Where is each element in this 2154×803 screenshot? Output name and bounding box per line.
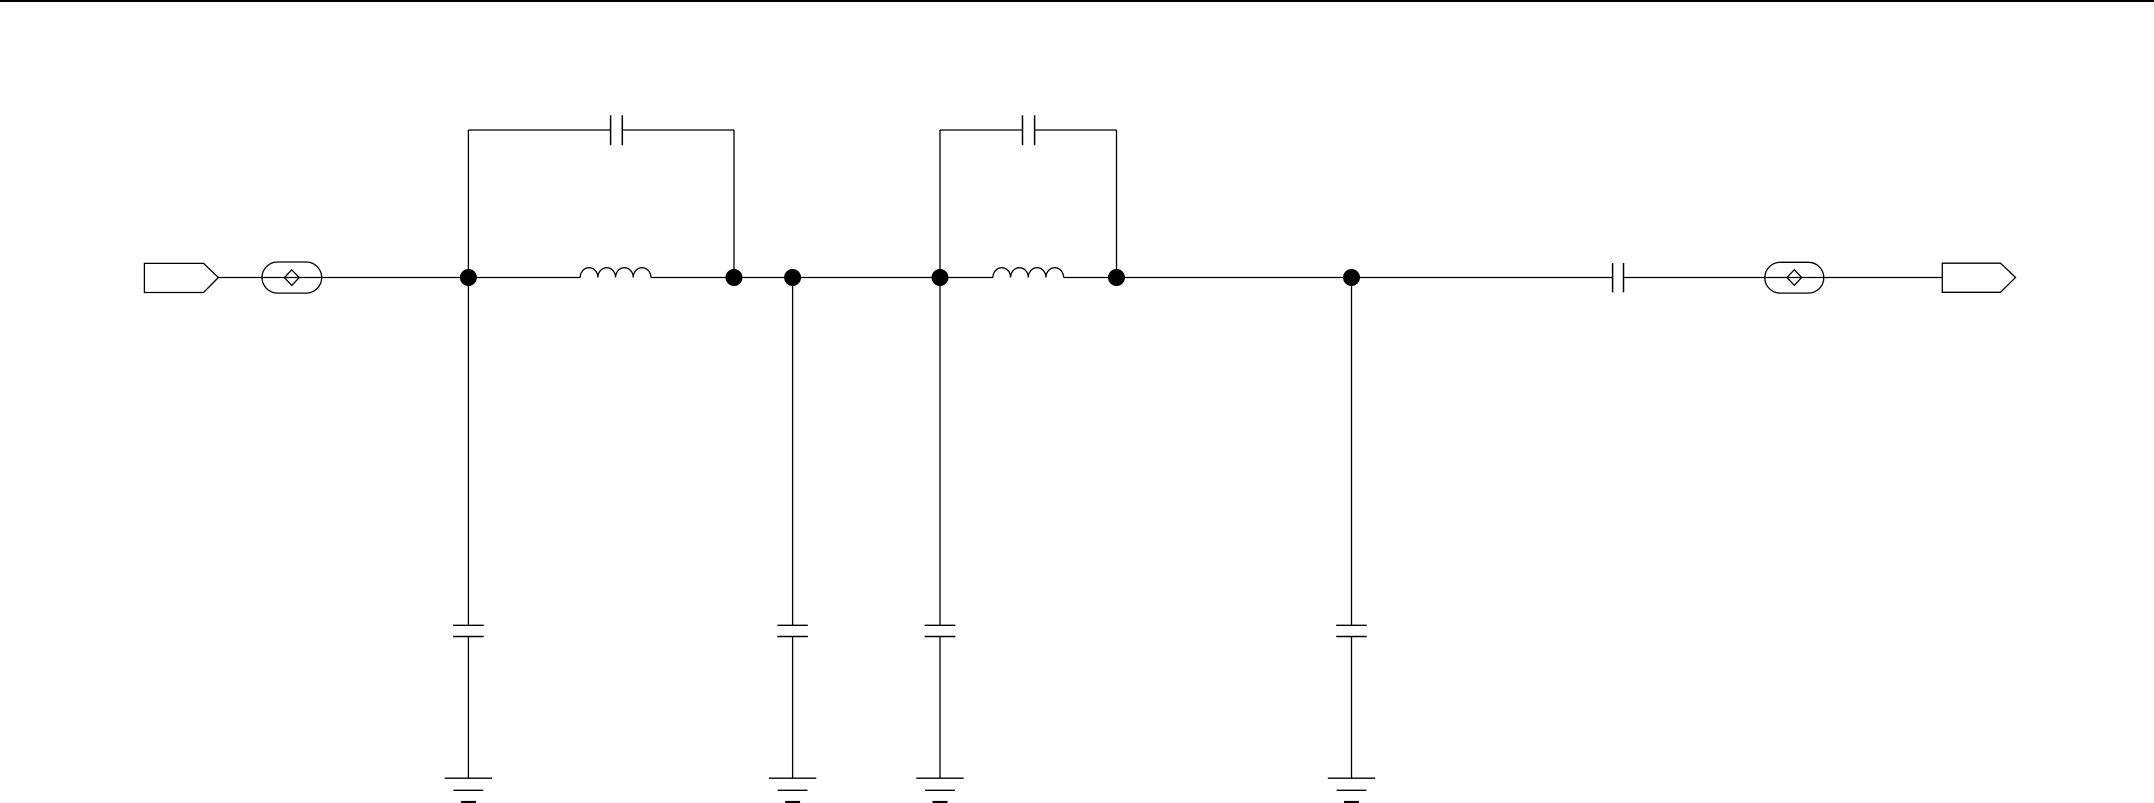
node junction dot 6 [1343,269,1360,286]
capacitor C3 (shunt 1) plates [453,625,484,636]
current probe Pr2 [1765,262,1824,293]
inductor L2 [993,268,1064,278]
wire vertical branch 2 [792,278,794,626]
node junction dot 5 [1108,269,1125,286]
inductor L1 [580,268,651,278]
ground G2 [769,778,816,802]
wire top loop 1 left [468,129,610,131]
ground G4 [1328,778,1375,802]
ground G1 [445,778,492,802]
wire vertical branch 4 [1351,278,1353,626]
wire top loop 2 left [940,129,1023,131]
wire right vertical loop 1 [733,130,735,278]
current probe Pr1 [262,262,322,293]
ground G3 [916,778,963,802]
wire C4 to ground [792,637,794,779]
port P1 (input) [144,263,218,292]
probe Pr2 diamond [1787,270,1802,286]
probe Pr1 diamond [284,270,299,286]
capacitor C7 (series) plates [1613,263,1624,292]
wire right vertical loop 2 [1116,130,1118,278]
node junction dot 4 [932,269,949,286]
wire C5 to ground [939,637,941,779]
capacitor C6 (shunt 4) plates [1336,625,1367,636]
wire vertical branch 3 upper [939,130,941,625]
wire node2 to inductor L2 [651,277,993,279]
wire top loop 2 right [1035,129,1117,131]
node junction dot 2 [726,269,743,286]
node junction dot 3 [784,269,801,286]
wire top loop 1 right [622,129,734,131]
capacitor C4 (shunt 2) plates [777,625,808,636]
wire vertical branch 1 upper [467,130,469,625]
port P2 (output) [1942,263,2015,292]
wire C6 to ground [1351,637,1353,779]
capacitor C1 (top parallel 1) plates [611,115,623,145]
wire C7 to port P2 [1624,277,1943,279]
capacitor C2 (top parallel 2) plates [1023,115,1035,145]
top border bar [0,0,2154,2]
capacitor C5 (shunt 3) plates [925,625,956,636]
wire P1 to node 1 [218,277,580,279]
wire node5 to capacitor C7 [1064,277,1613,279]
node junction dot 1 [460,269,477,286]
wire C3 to ground [467,637,469,779]
